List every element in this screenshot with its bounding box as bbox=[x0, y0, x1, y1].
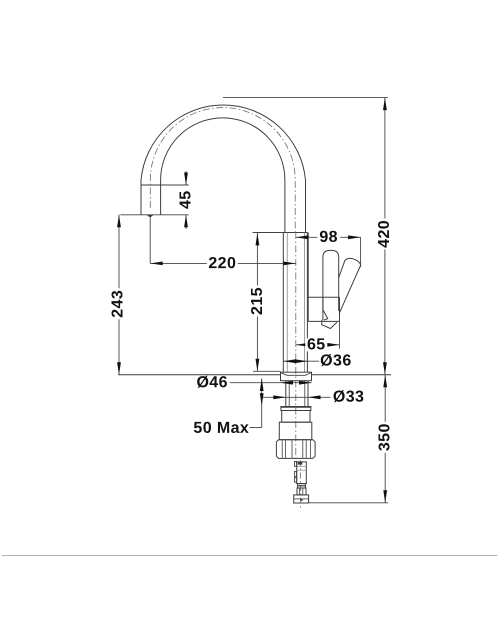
svg-text:243: 243 bbox=[109, 290, 126, 318]
dim 215 top extension bbox=[253, 232, 284, 234]
dim 50max label bbox=[193, 420, 249, 437]
connector step collar bbox=[298, 484, 306, 486]
svg-text:350: 350 bbox=[376, 423, 393, 451]
handle notch diagonal bbox=[323, 310, 328, 320]
dim 98 label bbox=[317, 229, 340, 246]
connector step collar 2 bbox=[298, 486, 306, 488]
dim 420 line bbox=[384, 98, 386, 375]
handle housing edge bbox=[307, 233, 309, 322]
dim 220 label bbox=[207, 255, 238, 272]
footer separator line bbox=[2, 555, 498, 557]
fitting center detail bbox=[300, 499, 302, 501]
dim D36 label bbox=[319, 352, 352, 369]
dim 420 arrows bbox=[383, 98, 387, 375]
dim 65 label bbox=[305, 336, 327, 353]
faucet spout outer arch bbox=[141, 105, 306, 233]
faucet spout inner arch bbox=[161, 118, 285, 233]
dim D36 arrows bbox=[283, 359, 307, 363]
dim 243 line bbox=[118, 215, 120, 375]
spray head joint line bbox=[141, 184, 161, 186]
dim 98 line bbox=[296, 236, 361, 238]
dim D33 label bbox=[332, 389, 365, 406]
counter deck line right bbox=[312, 374, 392, 376]
supply hose crimp bbox=[298, 462, 303, 464]
dim 98 right extension bbox=[360, 237, 362, 267]
flange inner chamfer bbox=[281, 373, 310, 375]
svg-text:Ø36: Ø36 bbox=[320, 352, 351, 369]
dim 420 top extension bbox=[223, 97, 388, 99]
svg-text:220: 220 bbox=[208, 255, 236, 272]
svg-text:Ø46: Ø46 bbox=[196, 374, 227, 391]
dim 65 right extension bbox=[339, 321, 341, 348]
dim 65 line bbox=[296, 344, 340, 346]
knurled mounting nut bbox=[276, 440, 315, 459]
hose side bar bbox=[295, 461, 297, 482]
svg-text:215: 215 bbox=[249, 287, 266, 315]
body column inner walls bbox=[287, 233, 304, 373]
dim 350 bottom extension bbox=[309, 502, 389, 504]
base flange outline bbox=[281, 372, 312, 381]
nut knurl lines bbox=[282, 440, 310, 457]
dim 45 extension lines bbox=[120, 185, 188, 215]
dim 350 arrows bbox=[383, 375, 387, 503]
counter deck line left bbox=[118, 374, 280, 376]
rod detail ticks bbox=[297, 466, 307, 470]
handle lever (upright) bbox=[323, 250, 339, 311]
dim 45 line bbox=[185, 171, 187, 229]
dim 215 arrows bbox=[256, 233, 260, 371]
dim D46 label bbox=[195, 374, 230, 391]
lower hose centerline (dash-dot) bbox=[300, 460, 302, 509]
dim 220 line bbox=[150, 262, 296, 264]
handle base right edge bbox=[339, 297, 341, 321]
svg-text:Ø33: Ø33 bbox=[333, 389, 364, 406]
handle base bottom line bbox=[308, 320, 339, 322]
mounting body lower bbox=[279, 422, 312, 440]
mounting shank inner bbox=[289, 381, 305, 407]
dim 350 line bbox=[384, 375, 386, 503]
dim 215 line bbox=[256, 233, 258, 371]
dim D36 line bbox=[283, 360, 319, 362]
handle base left edge bbox=[322, 297, 324, 320]
mounting collar bbox=[281, 407, 311, 411]
body centerline (dash-dot) bbox=[295, 232, 297, 460]
body step top line bbox=[253, 232, 308, 234]
dim 45 arrows bbox=[184, 173, 188, 228]
threaded connector rod bbox=[297, 462, 307, 484]
dim 220 extension from spray bbox=[149, 218, 151, 264]
dim 350 label bbox=[376, 422, 393, 453]
dim D46 arrows bbox=[281, 381, 312, 385]
svg-text:45: 45 bbox=[178, 190, 195, 209]
handle wedge detail bbox=[322, 320, 337, 329]
dim 215 bottom extension bbox=[253, 370, 281, 372]
body column left edge bbox=[282, 233, 284, 373]
handle lever (tilted position) bbox=[339, 258, 361, 313]
dim 215 label bbox=[249, 286, 266, 317]
dim 243 label bbox=[109, 288, 126, 319]
mounting shank outer bbox=[286, 381, 308, 407]
dim 243 arrows bbox=[117, 215, 121, 375]
dim 420 label bbox=[376, 218, 393, 249]
svg-text:65: 65 bbox=[307, 336, 326, 353]
dim 50max line bbox=[250, 379, 262, 428]
body column right edge bbox=[306, 233, 308, 373]
svg-text:50 Max: 50 Max bbox=[193, 420, 249, 437]
spray nozzle tip bbox=[147, 215, 153, 218]
mounting body upper bbox=[282, 411, 310, 423]
dim 45 label bbox=[178, 189, 195, 210]
dim D33 line bbox=[262, 396, 331, 398]
dim 50max arrows bbox=[260, 379, 264, 406]
dim 65 arrows bbox=[296, 343, 340, 347]
hose end fitting bbox=[294, 495, 309, 503]
spout centerline arc (dash-dot) bbox=[150, 108, 295, 233]
svg-text:98: 98 bbox=[319, 229, 338, 246]
dim 220 arrows bbox=[150, 262, 296, 266]
dim 98 arrows bbox=[296, 235, 361, 239]
dim D46 line bbox=[230, 382, 312, 384]
connector hex bbox=[297, 488, 306, 495]
dim D33 arrows bbox=[273, 395, 320, 399]
handle collar top line bbox=[308, 296, 339, 298]
svg-text:420: 420 bbox=[376, 220, 393, 248]
